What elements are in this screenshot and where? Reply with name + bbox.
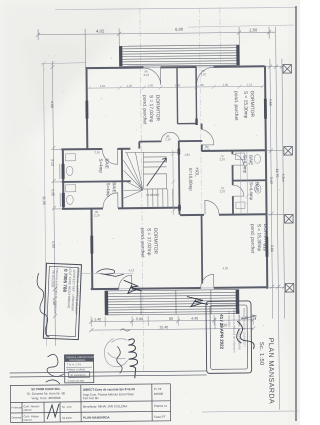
big stamp left bbox=[43, 263, 81, 339]
axis bubble 2 bbox=[284, 147, 293, 156]
svg-text:Secretar,: Secretar, bbox=[213, 317, 217, 329]
door arc top-right bbox=[196, 67, 213, 84]
svg-text:5,00: 5,00 bbox=[136, 317, 143, 321]
svg-text:pond. parchet: pond. parchet bbox=[141, 95, 147, 125]
door arc hol to bedroom bbox=[205, 200, 219, 214]
svg-text:HOL: HOL bbox=[195, 167, 200, 177]
wall bedroom west upper with door bbox=[201, 123, 203, 151]
window sill lines left bbox=[59, 164, 61, 179]
svg-text:S = 17,02mp: S = 17,02mp bbox=[148, 95, 154, 123]
svg-text:DORMITOR: DORMITOR bbox=[154, 95, 160, 122]
handwritten coil signature bbox=[128, 339, 137, 378]
wall between bathrooms left bbox=[62, 180, 131, 183]
small door size annotations bbox=[93, 69, 229, 273]
window block right wall upper bbox=[264, 99, 267, 119]
door threshold bottom-right bbox=[201, 287, 214, 289]
left dimension line outer bbox=[43, 63, 46, 346]
svg-text:15,40: 15,40 bbox=[159, 325, 168, 329]
svg-text:4,12: 4,12 bbox=[129, 268, 135, 272]
svg-text:Foii Jud. Bv: Foii Jud. Bv bbox=[83, 396, 99, 400]
second bottom dimension chain bbox=[89, 326, 255, 332]
axis centerline B bbox=[219, 7, 222, 66]
door threshold bottom-left bbox=[119, 288, 132, 290]
svg-text:4,00: 4,00 bbox=[50, 101, 54, 108]
svg-text:S=4,4mp: S=4,4mp bbox=[249, 182, 254, 201]
wall baths right side (left wing) bbox=[121, 148, 124, 208]
title block row labels bbox=[12, 404, 73, 422]
svg-text:2,10: 2,10 bbox=[220, 189, 226, 193]
faint upper horizontal line right bbox=[188, 25, 294, 27]
top dimension labels bbox=[96, 26, 258, 34]
exterior wall left lower bbox=[62, 149, 65, 209]
svg-text:2,10: 2,10 bbox=[204, 148, 210, 152]
svg-text:2,16: 2,16 bbox=[94, 150, 100, 154]
svg-text:2,10: 2,10 bbox=[219, 157, 225, 161]
dimension tick right of terrace bbox=[241, 315, 256, 320]
svg-text:Marcel: Marcel bbox=[24, 418, 32, 422]
axis centerline C bbox=[199, 7, 201, 214]
svg-text:Carh. Wexten: Carh. Wexten bbox=[24, 404, 40, 408]
svg-text:2,10: 2,10 bbox=[94, 213, 100, 217]
svg-text:pond. parchet: pond. parchet bbox=[139, 228, 145, 258]
svg-text:8/2008: 8/2008 bbox=[154, 392, 164, 396]
stamp bottom-right bbox=[206, 301, 252, 373]
bottom dimension labels bbox=[94, 316, 248, 329]
door arc top-left bbox=[143, 68, 160, 85]
svg-text:T. N. A. 1 3 5: T. N. A. 1 3 5 bbox=[67, 363, 82, 366]
door arc bottom-right bbox=[201, 274, 214, 287]
handwritten scribble plane left bbox=[97, 269, 124, 277]
svg-text:4,5m: 4,5m bbox=[281, 174, 285, 182]
stamp leader line bbox=[80, 272, 134, 275]
wall hol east (to right baths) bbox=[231, 150, 234, 214]
handwritten squiggle above title bbox=[117, 346, 123, 373]
handwritten scribble arrow in terrace bbox=[187, 296, 208, 306]
signature left of stamp bbox=[37, 273, 49, 337]
svg-text:Verig. Com. J08/2008: Verig. Com. J08/2008 bbox=[31, 396, 60, 400]
svg-text:Faza PT: Faza PT bbox=[154, 415, 166, 419]
svg-text:80: 80 bbox=[169, 317, 173, 321]
svg-text:3,18: 3,18 bbox=[262, 244, 266, 251]
svg-text:DORMITOR: DORMITOR bbox=[152, 228, 158, 255]
axis bubble 3 bbox=[285, 215, 294, 224]
svg-text:4,02: 4,02 bbox=[96, 28, 105, 33]
plan title text bbox=[258, 338, 275, 405]
sheet top edge line bbox=[55, 8, 296, 10]
svg-text:Anexa la certificatul de urban: Anexa la certificatul de urbanism bbox=[232, 309, 236, 353]
svg-text:Carh. Moylan: Carh. Moylan bbox=[24, 414, 40, 418]
exterior wall upper-left bbox=[85, 68, 88, 150]
room label baie right 2 bbox=[249, 182, 260, 201]
left dimension line inner bbox=[50, 61, 63, 346]
bottom terrace hatched deck bbox=[105, 290, 239, 315]
room label dormitor bottom-right bbox=[249, 224, 268, 254]
window block upper-left wall bbox=[85, 101, 88, 119]
svg-text:pond. parchet: pond. parchet bbox=[233, 91, 239, 121]
svg-text:VIZAT SPRE NESCHIMBARE: VIZAT SPRE NESCHIMBARE bbox=[237, 310, 241, 350]
room label baie 2 left bbox=[106, 182, 117, 197]
scan speckles bbox=[14, 19, 286, 413]
room label baie 1 left bbox=[98, 158, 109, 173]
window block left wall 1 bbox=[61, 164, 64, 179]
door arc bottom-left bbox=[119, 275, 132, 288]
exterior wall right bbox=[265, 66, 267, 289]
svg-text:6,00: 6,00 bbox=[175, 27, 184, 32]
duct shaft between top rooms bbox=[177, 67, 197, 124]
axis centerline A bbox=[140, 8, 144, 370]
svg-text:3,80: 3,80 bbox=[270, 245, 274, 252]
interior dim chain below top wall bbox=[87, 84, 265, 90]
bath fixtures bbox=[65, 152, 261, 211]
svg-text:PLAN MANSARDA: PLAN MANSARDA bbox=[267, 338, 275, 404]
svg-text:4,02: 4,02 bbox=[223, 266, 229, 270]
svg-text:11,35: 11,35 bbox=[42, 196, 46, 205]
svg-text:+2,50 NIV: +2,50 NIV bbox=[146, 193, 159, 197]
room label dormitor top-left bbox=[141, 95, 160, 125]
svg-text:1,30: 1,30 bbox=[223, 83, 229, 87]
svg-text:2,10: 2,10 bbox=[144, 73, 150, 77]
svg-text:Plansa nr.: Plansa nr. bbox=[154, 404, 168, 408]
door arc bath2 bbox=[103, 193, 118, 208]
svg-text:1,50: 1,50 bbox=[249, 27, 258, 32]
wall corridor north mid bbox=[139, 141, 202, 149]
svg-text:DIN ROMANIA: DIN ROMANIA bbox=[70, 359, 86, 362]
svg-text:1,40: 1,40 bbox=[94, 318, 101, 322]
interior dim line right baths bbox=[240, 152, 249, 213]
sheet right edge line bbox=[295, 6, 297, 421]
svg-text:PLAN MANSARDA: PLAN MANSARDA bbox=[83, 415, 110, 419]
stair right wall bbox=[178, 141, 181, 215]
wall corridor north right bbox=[202, 149, 265, 152]
signature near small stamp bbox=[45, 354, 63, 384]
wall bedroom west bbox=[201, 214, 204, 283]
exterior wall top bbox=[85, 66, 264, 68]
svg-text:1,15: 1,15 bbox=[247, 82, 253, 86]
svg-text:80: 80 bbox=[201, 83, 205, 87]
svg-text:1,00: 1,00 bbox=[148, 83, 154, 87]
svg-text:S = 15,30mp: S = 15,30mp bbox=[242, 91, 248, 119]
interior dim line right of stairs bbox=[171, 150, 176, 215]
svg-text:Desenat: Desenat bbox=[12, 415, 22, 419]
bottom dimension chain bbox=[89, 315, 255, 327]
axis bubble 4 bbox=[285, 283, 294, 292]
room label hol bbox=[188, 167, 200, 191]
wall south of hol/baths bbox=[180, 213, 266, 216]
stair arrow bbox=[146, 158, 166, 186]
wall corridor north left bbox=[61, 148, 130, 151]
svg-text:Beneficiar: MIHAI JAN SI ELEN: Beneficiar: MIHAI JAN SI ELENA bbox=[83, 404, 127, 408]
door threshold top-left bbox=[143, 66, 160, 68]
left dimension labels bbox=[41, 101, 56, 305]
sheet separator lines above title block bbox=[10, 371, 207, 373]
svg-text:0 7005 788: 0 7005 788 bbox=[62, 269, 68, 293]
svg-text:DORMITOR: DORMITOR bbox=[249, 91, 255, 118]
room label coridor bbox=[139, 228, 158, 258]
window block lower west wall bbox=[90, 236, 93, 254]
svg-text:4,50: 4,50 bbox=[268, 99, 272, 106]
top dimension chain bbox=[36, 27, 275, 69]
exterior wall bottom bbox=[91, 287, 267, 289]
svg-text:Marcel: Marcel bbox=[24, 408, 32, 412]
scan shading right bbox=[288, 0, 300, 425]
svg-text:4,00: 4,00 bbox=[51, 241, 55, 248]
svg-text:2,10: 2,10 bbox=[165, 137, 171, 141]
svg-text:Sc. 1:50: Sc. 1:50 bbox=[62, 405, 72, 409]
handwritten scribble arrow center bbox=[124, 280, 142, 293]
door arc bedroom TR bbox=[202, 129, 214, 145]
svg-text:pond. parchet: pond. parchet bbox=[249, 224, 255, 254]
door arc right bath1 bbox=[232, 154, 243, 165]
handwritten pencil cloud bbox=[104, 338, 127, 367]
svg-text:3,13: 3,13 bbox=[50, 159, 54, 166]
top-left dim leader bbox=[41, 61, 86, 65]
door arc right bath2 bbox=[233, 185, 244, 196]
right dimension labels bbox=[261, 99, 286, 252]
top terrace hatched deck bbox=[119, 45, 239, 66]
door arc bath1 top bbox=[102, 149, 117, 164]
window block left wall 2 bbox=[62, 193, 65, 207]
svg-text:BAIE: BAIE bbox=[255, 182, 260, 192]
svg-text:nr. din 2008: nr. din 2008 bbox=[227, 311, 231, 327]
svg-text:S = 15,30mp: S = 15,30mp bbox=[256, 224, 262, 252]
svg-text:S=10,80mp: S=10,80mp bbox=[188, 168, 193, 192]
svg-text:41 / 29 APR 2022: 41 / 29 APR 2022 bbox=[219, 314, 224, 349]
title block signature check bbox=[47, 404, 59, 419]
wall south of left wing bbox=[62, 208, 181, 209]
svg-text:S=4mp: S=4mp bbox=[98, 158, 103, 173]
title block object text bbox=[83, 387, 168, 420]
exterior wall corridor west lower bbox=[90, 209, 93, 290]
wall between right baths bbox=[233, 179, 266, 181]
scribble over stamp bbox=[237, 321, 255, 349]
title block firm text bbox=[27, 387, 65, 400]
top terrace end posts bbox=[119, 46, 122, 66]
svg-text:1,35: 1,35 bbox=[51, 189, 55, 196]
svg-text:3,40: 3,40 bbox=[269, 177, 273, 184]
svg-text:BAIE: BAIE bbox=[104, 158, 109, 168]
svg-text:1,20: 1,20 bbox=[127, 84, 133, 88]
svg-text:1,55: 1,55 bbox=[100, 84, 106, 88]
axis bubble 1 bbox=[283, 65, 292, 74]
small stamp above title block bbox=[64, 355, 95, 383]
svg-text:2,10: 2,10 bbox=[201, 72, 207, 76]
right dimension lines bbox=[264, 27, 288, 410]
svg-text:Proiectat: Proiectat bbox=[12, 405, 23, 409]
svg-text:04.2008: 04.2008 bbox=[62, 416, 72, 420]
svg-text:S=4mp: S=4mp bbox=[106, 182, 111, 197]
svg-text:11,70: 11,70 bbox=[275, 169, 279, 178]
svg-text:Sc. 1:50: Sc. 1:50 bbox=[258, 342, 264, 366]
door semicircle corridor bbox=[161, 132, 179, 141]
svg-text:Nr. din 20: Nr. din 2008 bbox=[50, 270, 55, 287]
svg-text:Pr. Nr.: Pr. Nr. bbox=[154, 387, 163, 391]
svg-text:1,84: 1,84 bbox=[184, 153, 190, 157]
scan shading top-left bbox=[0, 0, 150, 170]
svg-text:OBIECT:Casa de vacanta Sp+P+E+: OBIECT:Casa de vacanta Sp+P+E+M bbox=[83, 387, 135, 392]
staircase bbox=[123, 152, 179, 209]
room label dormitor top-right bbox=[233, 91, 255, 121]
room label baie right 1 bbox=[242, 155, 253, 174]
title block table bbox=[10, 384, 170, 423]
svg-text:BAIE: BAIE bbox=[248, 155, 253, 165]
svg-text:4,40: 4,40 bbox=[191, 317, 198, 321]
svg-text:Arhitect cu drept: Arhitect cu drept bbox=[67, 368, 86, 371]
bottom terrace end posts bbox=[105, 291, 108, 315]
door threshold top-right bbox=[196, 66, 213, 68]
svg-text:in baza de date: in baza de date bbox=[68, 379, 85, 382]
svg-text:S = 17,02mp: S = 17,02mp bbox=[146, 228, 152, 256]
svg-text:BAIE: BAIE bbox=[112, 182, 117, 192]
window block right wall lower bbox=[265, 237, 268, 257]
